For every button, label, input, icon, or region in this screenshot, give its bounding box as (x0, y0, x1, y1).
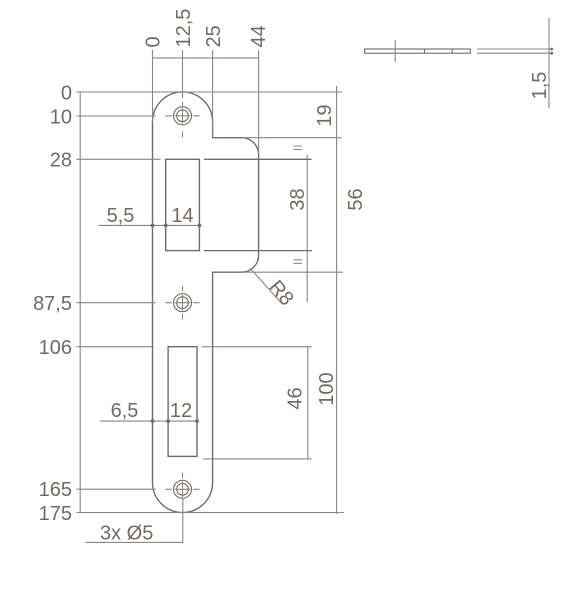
svg-text:38: 38 (287, 188, 309, 210)
extension line y=28 right (204, 158, 312, 160)
svg-text:25: 25 (203, 25, 225, 47)
cutout deadbolt 12x46 (168, 347, 197, 457)
equal mark lower (294, 260, 302, 264)
svg-text:6,5: 6,5 (111, 400, 139, 422)
svg-text:46: 46 (285, 387, 307, 409)
extension line y=10 (77, 115, 156, 117)
extension line y=0 (77, 91, 343, 93)
dimension dots 6,5 12 (151, 419, 199, 423)
dimension dots 5,5 14 (151, 224, 202, 228)
svg-text:R8: R8 (264, 276, 297, 310)
extension line thickness bottom (477, 52, 554, 54)
svg-text:0: 0 (143, 36, 165, 47)
svg-text:12,5: 12,5 (173, 9, 195, 48)
extension line x=25 (212, 50, 214, 138)
extension line y=28 (77, 158, 161, 160)
dimension line 19 56 100 (336, 86, 338, 514)
svg-text:19: 19 (314, 104, 336, 126)
extension line y=152 right (203, 458, 312, 460)
dimension line 5,5 and 14 (99, 224, 200, 226)
svg-text:44: 44 (248, 25, 270, 47)
screw hole H1 center cross (175, 108, 191, 124)
screw hole H3 center cross (175, 482, 191, 498)
svg-text:10: 10 (50, 106, 72, 128)
side view bend line at 25 (424, 49, 426, 53)
svg-text:106: 106 (39, 337, 72, 359)
svg-text:165: 165 (39, 479, 72, 501)
svg-text:100: 100 (316, 372, 338, 405)
svg-text:87,5: 87,5 (33, 293, 72, 315)
screw hole H3 center line dashes (165, 473, 199, 490)
extension line y=87.5 (77, 302, 156, 304)
side view bend line at 36.5 (451, 49, 453, 53)
dimension line 6,5 and 12 (100, 420, 197, 422)
screw hole H2 outer (174, 294, 192, 312)
screw hole H1 inner (177, 110, 189, 122)
screw hole H3 outer (174, 480, 192, 498)
dimension line 1,5 (548, 18, 550, 108)
screw hole H2 center line dashes (165, 286, 199, 319)
svg-text:3x Ø5: 3x Ø5 (100, 523, 153, 545)
side view bar outline (365, 49, 471, 53)
screw hole H2 inner (177, 297, 189, 309)
extension line y=19 right (246, 137, 342, 139)
extension line x=0 (152, 50, 154, 122)
screw hole H1 outer (174, 107, 192, 125)
left dimension line vertical (79, 92, 81, 513)
screw hole H3 inner (177, 483, 189, 495)
extension line y=75 right (246, 271, 343, 273)
extension line x=12.5 (182, 50, 184, 99)
leader line R8 (250, 268, 282, 304)
extension line y=106 (77, 346, 155, 348)
dimension line 38 (306, 155, 308, 302)
dimension ticks 1,5 (550, 48, 553, 55)
side view hole center line (394, 40, 396, 62)
screw hole H1 center line dashes (165, 102, 199, 138)
extension line y=175 (77, 512, 345, 514)
dimension line 46 (307, 347, 309, 460)
svg-text:14: 14 (171, 205, 193, 227)
extension line x=44 (258, 50, 260, 155)
extension line thickness top (477, 48, 554, 50)
svg-text:1,5: 1,5 (529, 72, 551, 100)
extension line y=165 (77, 488, 156, 490)
svg-text:5,5: 5,5 (107, 205, 135, 227)
svg-text:175: 175 (39, 503, 72, 525)
screw hole H2 center cross (175, 295, 191, 311)
top dimension line horizontal (153, 57, 259, 59)
extension line y=66 right (204, 250, 312, 252)
cutout latch 14x38 (166, 159, 200, 250)
equal mark upper (294, 146, 302, 150)
svg-text:56: 56 (345, 188, 367, 210)
svg-text:12: 12 (170, 400, 192, 422)
extension line y=106 right (202, 346, 312, 348)
leader line 3x diameter 5 (86, 498, 183, 542)
svg-text:0: 0 (61, 82, 72, 104)
svg-text:28: 28 (50, 150, 72, 172)
plate outline (153, 92, 259, 513)
